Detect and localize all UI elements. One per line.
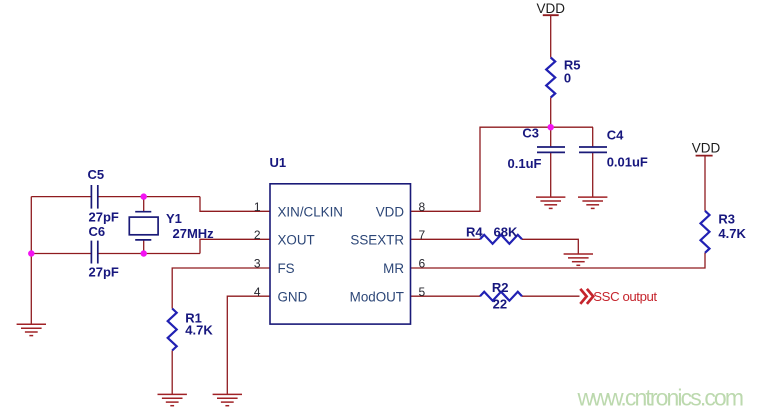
svg-text:22: 22 bbox=[493, 296, 507, 311]
wire C3 top stem bbox=[550, 127, 552, 147]
resistor R5 bbox=[546, 58, 555, 98]
svg-text:C3: C3 bbox=[522, 126, 539, 141]
wire GND pin to ground bbox=[227, 296, 270, 394]
svg-text:R2: R2 bbox=[492, 280, 509, 295]
svg-text:C5: C5 bbox=[88, 167, 105, 182]
ground R4 bbox=[564, 254, 593, 265]
svg-text:MR: MR bbox=[383, 261, 404, 276]
wire pin8 VDD net bbox=[411, 127, 594, 211]
wire top net C5 horizontal bbox=[31, 196, 200, 198]
svg-text:0.01uF: 0.01uF bbox=[607, 155, 648, 170]
svg-text:27MHz: 27MHz bbox=[173, 226, 215, 241]
junction dot crystal bottom bbox=[141, 250, 147, 256]
junction dot left C6 bbox=[28, 250, 34, 256]
capacitor C6 bbox=[91, 241, 97, 264]
ground GND pin bbox=[213, 394, 242, 405]
svg-text:Y1: Y1 bbox=[166, 211, 182, 226]
wire R1 to ground bbox=[171, 351, 173, 395]
svg-text:C6: C6 bbox=[89, 224, 106, 239]
wire C3 bottom stem bbox=[550, 152, 552, 197]
wire bottom net C6 horizontal bbox=[31, 253, 200, 255]
ground C4 bbox=[578, 197, 607, 208]
capacitor C3 bbox=[537, 147, 565, 152]
power VDD right bbox=[696, 155, 713, 157]
resistor R4 bbox=[480, 235, 522, 244]
wire C4 top stem bbox=[592, 127, 594, 147]
svg-text:5: 5 bbox=[419, 285, 426, 299]
svg-text:27pF: 27pF bbox=[89, 209, 119, 224]
svg-text:C4: C4 bbox=[607, 128, 624, 143]
svg-text:7: 7 bbox=[419, 228, 426, 242]
svg-text:1: 1 bbox=[254, 200, 261, 214]
svg-text:ModOUT: ModOUT bbox=[350, 289, 404, 304]
wire R4 to ground bbox=[522, 239, 578, 254]
crystal Y1 bbox=[129, 212, 158, 240]
svg-text:4.7K: 4.7K bbox=[718, 226, 746, 241]
wire crystal top stem bbox=[143, 197, 145, 212]
svg-text:XIN/CLKIN: XIN/CLKIN bbox=[278, 205, 343, 220]
wire VDD to R5 bbox=[550, 15, 552, 57]
wire pin6 MR to R3 bbox=[411, 253, 706, 268]
ground R1 bbox=[158, 394, 187, 405]
svg-text:8: 8 bbox=[419, 200, 426, 214]
svg-text:4: 4 bbox=[254, 285, 261, 299]
wire crystal bottom stem bbox=[143, 240, 145, 254]
svg-text:SSC output: SSC output bbox=[593, 289, 657, 304]
wire R2 to SSC output bbox=[522, 295, 580, 297]
resistor R2 bbox=[480, 292, 522, 301]
power VDD top bbox=[543, 14, 559, 16]
wire pin7 to R4 bbox=[411, 238, 481, 240]
wire FS to R1 bbox=[172, 268, 270, 309]
wire R5 to junction bbox=[550, 98, 552, 128]
svg-text:2: 2 bbox=[254, 228, 261, 242]
svg-text:www.cntronics.com: www.cntronics.com bbox=[577, 385, 745, 411]
svg-text:VDD: VDD bbox=[537, 1, 566, 16]
svg-text:R3: R3 bbox=[718, 212, 735, 227]
svg-text:VDD: VDD bbox=[376, 205, 405, 220]
svg-text:0: 0 bbox=[564, 71, 571, 86]
resistor R1 bbox=[168, 309, 177, 351]
junction dot C3 C4 net bbox=[548, 124, 554, 130]
svg-text:SSEXTR: SSEXTR bbox=[350, 233, 404, 248]
svg-text:4.7K: 4.7K bbox=[185, 323, 213, 338]
wire jog to pin1 bbox=[200, 197, 270, 212]
svg-text:VDD: VDD bbox=[692, 141, 721, 156]
wire left vertical bbox=[30, 197, 32, 325]
svg-text:XOUT: XOUT bbox=[278, 233, 315, 248]
svg-text:R4: R4 bbox=[466, 225, 483, 240]
wire jog to pin2 bbox=[200, 239, 270, 253]
svg-text:0.1uF: 0.1uF bbox=[508, 156, 542, 171]
capacitor C5 bbox=[91, 185, 97, 209]
capacitor C4 bbox=[579, 147, 607, 152]
wire R3 to VDD bbox=[704, 156, 706, 211]
svg-text:27pF: 27pF bbox=[89, 264, 119, 279]
svg-text:GND: GND bbox=[278, 289, 308, 304]
svg-text:68K: 68K bbox=[494, 225, 518, 240]
svg-text:6: 6 bbox=[419, 257, 426, 271]
junction dot crystal top bbox=[141, 193, 147, 199]
resistor R3 bbox=[701, 211, 710, 253]
op IC U1 bbox=[270, 184, 411, 324]
ground left net bbox=[17, 324, 46, 335]
svg-text:FS: FS bbox=[278, 261, 295, 276]
node SSC output port bbox=[580, 289, 593, 304]
ground C3 bbox=[536, 197, 565, 208]
svg-text:U1: U1 bbox=[270, 155, 287, 170]
wire pin5 to R2 bbox=[411, 295, 481, 297]
svg-text:3: 3 bbox=[254, 257, 261, 271]
wire C4 bottom stem bbox=[592, 152, 594, 197]
